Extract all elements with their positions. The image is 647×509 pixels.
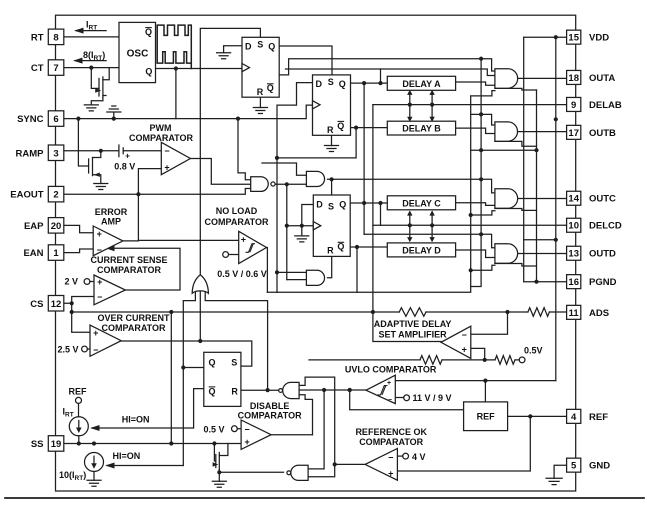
svg-text:4: 4 <box>571 412 577 423</box>
node CT-mosfet gate junction <box>89 66 93 70</box>
wire NAND1 lower input from disable <box>299 395 312 435</box>
svg-text:+: + <box>388 469 393 479</box>
svg-text:ADS: ADS <box>589 308 609 319</box>
svg-text:COMPARATOR: COMPARATOR <box>205 217 269 227</box>
wire DELAB line pin 9 <box>373 104 566 106</box>
wire link y239.8 <box>524 239 556 241</box>
wire FF1 D to ground <box>224 46 242 53</box>
AND gate B (OUTB) <box>495 122 518 141</box>
over current comparator triangle <box>90 325 121 356</box>
terminal 0.5V disable <box>232 426 238 432</box>
resistor R4 <box>495 356 515 365</box>
wire gate F output up to FF3 R <box>328 256 332 277</box>
UVLO comparator triangle <box>366 375 395 403</box>
svg-text:6: 6 <box>53 114 58 125</box>
resistor R2 ADS <box>528 308 549 317</box>
svg-text:AMP: AMP <box>101 217 121 227</box>
wire RAMP line with battery to PWM minus <box>64 150 162 152</box>
AND gate E (above FF3) <box>306 171 324 186</box>
pin 9 DELAB <box>567 97 581 111</box>
wire bus 481 vertical <box>471 58 481 287</box>
NAND gate NAND1 (points left) <box>283 382 299 398</box>
wire EAOUT line to gate W <box>64 189 251 195</box>
arrow IRT <box>76 30 106 32</box>
wire gate A rail staircase right <box>495 88 537 90</box>
SR latch <box>204 352 241 406</box>
wire SS to CS line vertical <box>170 312 172 444</box>
pin 11 ADS <box>567 305 581 319</box>
node CS pin branches <box>70 301 74 305</box>
wire FF2 Q to DELAY A <box>351 82 388 84</box>
wire cross link y150 <box>471 149 537 151</box>
PWM comparator triangle <box>161 142 190 174</box>
svg-text:Q: Q <box>339 79 346 89</box>
no-load comparator triangle <box>239 231 267 263</box>
node SYNC internal ground <box>112 117 116 121</box>
current sense comparator triangle <box>94 275 125 305</box>
wire NAND1 upper input from REFOK <box>299 377 335 477</box>
OSC Q-bar waveform glyph <box>157 25 191 68</box>
pin 19 SS <box>48 436 64 452</box>
svg-text:CURRENT SENSE: CURRENT SENSE <box>90 255 167 265</box>
delay block DELAY A <box>387 76 455 90</box>
wire no-load comparator output down to mesh <box>266 248 269 293</box>
svg-text:−: − <box>388 397 392 404</box>
wire gate D top step <box>481 234 495 247</box>
wire 0.5V line with resistors <box>309 359 519 361</box>
svg-text:COMPARATOR: COMPARATOR <box>129 133 193 143</box>
wire VDD bus right vertical <box>555 37 557 380</box>
wire SYNC line <box>64 105 313 119</box>
pin 20 EAP <box>48 218 64 234</box>
svg-text:DELCD: DELCD <box>589 221 622 232</box>
node ADS minus tap <box>505 310 509 314</box>
wire REF box top stub <box>484 381 486 402</box>
wire gate A staircase to mesh vertical <box>471 91 495 96</box>
svg-text:NO LOAD: NO LOAD <box>216 206 258 216</box>
pin 7 CT <box>48 60 64 76</box>
delay block DELAY C <box>387 196 455 210</box>
svg-text:−: − <box>93 345 98 355</box>
node bus-277 at gate F <box>275 270 279 274</box>
REF regulator box <box>464 402 508 431</box>
AND gate W (PWM gating) <box>251 177 269 192</box>
svg-text:GND: GND <box>589 461 610 472</box>
svg-text:D: D <box>315 79 322 89</box>
pin 8 RT <box>48 29 64 44</box>
svg-text:2: 2 <box>53 190 58 201</box>
pin 1 EAN <box>48 245 64 260</box>
pin 5 GND <box>567 458 581 472</box>
svg-text:Q: Q <box>339 200 346 210</box>
svg-text:DELAY A: DELAY A <box>402 79 441 89</box>
svg-text:REF: REF <box>589 412 608 423</box>
wire DELAY D output to gate D <box>456 250 495 258</box>
terminal 11V/9V <box>404 395 410 401</box>
delay block DELAY B <box>387 121 455 135</box>
wire no-load upper input from error amp output <box>138 239 238 241</box>
svg-text:OUTC: OUTC <box>589 194 616 205</box>
svg-text:HI=ON: HI=ON <box>113 451 141 461</box>
node bus-277 at Qbar feedback <box>275 156 279 160</box>
svg-text:+: + <box>462 345 467 355</box>
wire gate A output to OUTA <box>505 77 566 79</box>
delay AB arrows <box>410 93 432 118</box>
clock input triangle FF2 <box>313 101 321 109</box>
svg-text:CT: CT <box>31 63 44 74</box>
flip-flop FF3 <box>313 195 350 256</box>
ground at GND pin <box>546 478 562 484</box>
svg-text:2 V: 2 V <box>65 277 79 287</box>
node OC to OR center <box>198 339 202 343</box>
OR gate (PWM latch set, points up) <box>192 275 208 294</box>
ground under FF1 <box>253 108 267 114</box>
wire 2.5V source to OC comp minus <box>87 348 90 350</box>
pin 10 DELCD <box>567 218 581 232</box>
ground under M2 <box>94 184 108 190</box>
wire CT pin to OSC <box>64 67 119 69</box>
wire gate F lower input from clock bus <box>287 279 307 281</box>
wire gate D output to OUTD <box>508 253 566 255</box>
wire OR left input from CS line <box>183 291 195 466</box>
svg-text:REFERENCE OK: REFERENCE OK <box>355 427 427 437</box>
svg-text:S: S <box>328 77 334 87</box>
wire VDD bus left vertical <box>523 37 525 282</box>
svg-text:0.5 V / 0.6 V: 0.5 V / 0.6 V <box>217 269 267 279</box>
svg-text:0.5V: 0.5V <box>524 345 543 355</box>
wire gate B rail staircase <box>495 141 537 146</box>
disable comparator triangle <box>241 420 271 449</box>
terminal 2V <box>84 279 90 285</box>
pin 14 OUTC <box>567 191 581 205</box>
svg-text:S: S <box>257 40 263 50</box>
svg-text:−: − <box>388 453 393 463</box>
wire gate D staircase to mesh vertical <box>471 265 495 270</box>
wire OR center input <box>199 292 201 342</box>
ground above SYNC line (inverted) <box>107 106 121 119</box>
svg-text:+: + <box>241 235 246 245</box>
wire CS comp output feedback to error amp minus <box>107 248 180 290</box>
svg-text:R: R <box>327 125 334 135</box>
overline FF3 Qbar <box>338 241 345 243</box>
clock input triangle FF3 <box>313 222 321 230</box>
resistor R1 ADS <box>399 308 426 317</box>
svg-text:−: − <box>462 330 467 340</box>
svg-text:RT: RT <box>31 32 44 43</box>
svg-text:Q: Q <box>145 27 152 37</box>
node SYNC mosfet-gate branch <box>76 117 80 121</box>
svg-text:PGND: PGND <box>589 277 617 288</box>
wire gate C top step <box>481 179 495 193</box>
ground at FF1 D <box>217 53 231 59</box>
svg-text:Q: Q <box>145 66 152 76</box>
wire DELAY C output to gate C <box>456 203 495 206</box>
wire gate2 upper feed from UVLO <box>308 390 324 469</box>
wire FF3 Qbar to DELAY D <box>350 246 387 248</box>
flip-flop FF1 <box>242 37 279 97</box>
ground under M1 <box>84 105 98 111</box>
wire gate C output to OUTC <box>508 198 566 200</box>
svg-text:10: 10 <box>568 221 579 232</box>
svg-text:DELAB: DELAB <box>589 100 622 111</box>
svg-text:R: R <box>231 386 238 396</box>
wire UVLO output to NAND1 <box>299 389 366 391</box>
svg-text:REF: REF <box>477 412 496 422</box>
wire pin4 net down to refok plus <box>397 416 530 471</box>
wire IRT source to SS line <box>78 436 80 444</box>
wire FF3 D to ground <box>302 205 314 236</box>
wire ADS line pin 11 <box>426 311 566 313</box>
pin 3 RAMP <box>48 145 64 161</box>
wire gate B top step <box>471 114 495 125</box>
svg-text:COMPARATOR: COMPARATOR <box>359 437 423 447</box>
svg-text:18: 18 <box>568 73 579 84</box>
node REF box top tap <box>483 379 487 383</box>
svg-text:COMPARATOR: COMPARATOR <box>238 411 302 421</box>
node A-bus tap <box>479 57 483 61</box>
svg-text:13: 13 <box>568 249 579 260</box>
svg-text:−: − <box>97 245 102 255</box>
node SS junctions <box>77 441 81 445</box>
svg-text:−: − <box>244 425 249 435</box>
svg-text:R: R <box>327 246 334 256</box>
terminal 4V <box>403 453 409 459</box>
AND gate F (below FF3) <box>306 270 324 285</box>
svg-text:RAMP: RAMP <box>16 148 45 159</box>
wire VDD pin line <box>524 36 566 38</box>
wire gate D rail staircase right <box>495 264 537 267</box>
pin 16 PGND <box>567 275 581 289</box>
node SYNC gating branch <box>236 117 240 121</box>
bubble on NAND1 output <box>279 389 283 393</box>
wire PWM comparator output to gate W <box>190 159 250 185</box>
wire FF1 Qbar to gate A top <box>279 59 495 75</box>
wire EAN input <box>64 249 93 253</box>
wire mesh line y294 <box>267 96 470 292</box>
wire RT pin to OSC <box>64 36 119 38</box>
wire SS line <box>64 443 241 445</box>
arrow 8(IRT) <box>75 60 106 62</box>
flip-flop FF2 <box>313 75 351 135</box>
svg-text:Q: Q <box>337 121 344 131</box>
pin 15 VDD <box>567 30 581 44</box>
svg-text:Q: Q <box>268 41 275 51</box>
AND gate C (OUTC) <box>495 189 518 209</box>
wire OSC Q clock to FF1 clock <box>156 68 243 70</box>
svg-text:S: S <box>231 358 237 368</box>
wire UVLO net down to REF box <box>350 390 464 410</box>
pin 13 OUTD <box>567 246 581 260</box>
bottom figure rule <box>5 497 644 499</box>
wire gate F upper input <box>277 271 306 273</box>
svg-text:Q: Q <box>208 386 215 396</box>
svg-text:Q: Q <box>267 83 274 93</box>
wire FF1 Q to FF2 S <box>279 46 332 75</box>
error amplifier triangle <box>93 226 123 256</box>
svg-text:−: − <box>164 146 169 156</box>
svg-text:11: 11 <box>569 308 580 319</box>
wire OR right input to latch R drop <box>205 291 267 390</box>
wire DELCD line pin 10 <box>373 224 566 226</box>
svg-text:1: 1 <box>53 248 59 259</box>
wire gate B output to OUTB <box>508 131 566 133</box>
wire latch Q output <box>183 367 204 369</box>
svg-text:+: + <box>164 163 169 173</box>
overline OSC Qbar <box>145 27 152 29</box>
transistor M2 (RAMP discharge) <box>78 119 88 166</box>
wire FF3 Qbar drop to mesh <box>356 247 358 292</box>
svg-text:3: 3 <box>53 148 58 159</box>
wire latch Qbar to HI=ON upper <box>92 389 204 428</box>
ground under FF2 <box>325 146 339 152</box>
svg-text:+: + <box>97 229 102 239</box>
IC boundary <box>56 15 576 491</box>
svg-text:DELAY C: DELAY C <box>402 198 441 208</box>
wire gate E upper input <box>262 163 306 175</box>
svg-text:DELAY D: DELAY D <box>402 246 441 256</box>
terminal 2.5V <box>82 346 88 352</box>
svg-text:0.5 V: 0.5 V <box>204 425 225 435</box>
svg-text:EAP: EAP <box>24 221 44 232</box>
wire FF3 Q staircase to gate D top <box>364 233 481 235</box>
wire rail vertical x536.5 <box>536 90 538 282</box>
svg-text:4 V: 4 V <box>412 452 426 462</box>
wire FF2 R to ground <box>331 135 333 145</box>
svg-text:SS: SS <box>31 439 44 450</box>
wire gate E output to FF3 S and bus <box>328 178 482 180</box>
current source 10(IRT) <box>85 453 104 472</box>
node ADS plus tap <box>483 358 487 362</box>
svg-text:OUTA: OUTA <box>589 73 615 84</box>
clock input triangle FF1 <box>242 64 250 72</box>
node FF2 Qbar tap <box>354 126 358 130</box>
wire clock drop to FF3 and gate F <box>287 184 314 279</box>
svg-text:D: D <box>245 41 252 51</box>
reference OK comparator triangle (points left) <box>365 449 397 481</box>
wire disable comparator output <box>271 434 312 436</box>
svg-text:8: 8 <box>53 32 58 43</box>
wire ADS amp minus input <box>471 312 508 334</box>
svg-text:CS: CS <box>30 299 43 310</box>
wire ADS amp output feedback <box>373 312 441 342</box>
svg-text:15: 15 <box>568 33 579 44</box>
svg-text:Q: Q <box>337 242 344 252</box>
svg-text:OUTD: OUTD <box>589 249 616 260</box>
svg-text:Q: Q <box>208 358 215 368</box>
wire refok output <box>335 463 365 465</box>
wire CS long line to ADS network <box>72 311 400 313</box>
delay CD arrows <box>410 214 432 239</box>
svg-text:D: D <box>316 200 323 210</box>
wire mid vertical bus x373 <box>372 105 374 312</box>
wire GND pin ground <box>554 465 566 478</box>
wire PGND line pin16 <box>524 281 566 283</box>
svg-text:0.8 V: 0.8 V <box>114 162 135 172</box>
svg-text:16: 16 <box>568 277 579 288</box>
svg-text:HI=ON: HI=ON <box>122 415 150 425</box>
ground under 10IRT <box>87 480 101 486</box>
wire UVLO plus supply line <box>395 380 556 382</box>
wire HI=ON lower arrow line to gate G2 <box>107 465 183 467</box>
wire EAP input <box>64 225 93 232</box>
battery 0.8V <box>119 145 123 157</box>
transistor M3 (SS discharge) <box>214 444 215 462</box>
pin 2 EAOUT <box>48 186 64 202</box>
current source IRT <box>69 417 88 436</box>
wire FF2 Qbar to DELAY B <box>351 127 388 129</box>
svg-text:19: 19 <box>51 439 62 450</box>
wire ADS amp plus input <box>471 348 485 360</box>
node RAMP mosfet drain <box>99 149 103 153</box>
node gate W output branch <box>285 182 289 186</box>
oscillator OSC <box>119 22 156 82</box>
svg-text:ERROR: ERROR <box>95 207 128 217</box>
bubble on gate W output <box>271 182 275 186</box>
svg-text:17: 17 <box>568 128 579 139</box>
wire FF3 Q to DELAY C <box>350 202 387 204</box>
wire FF2 Qbar feedback <box>277 128 356 158</box>
wire OR output to FF1 S <box>200 28 260 274</box>
svg-text:+: + <box>244 437 249 447</box>
terminal REF <box>76 397 82 403</box>
node CS line to SS drop <box>169 310 173 314</box>
wire DELAY A output to gate A <box>456 82 495 85</box>
ground at FF3 D <box>295 236 309 242</box>
wire error amp output to EAOUT node <box>123 194 138 241</box>
bubble on G2 output <box>287 471 291 475</box>
adaptive delay set amplifier triangle <box>441 326 471 358</box>
node latch Q on long vertical <box>181 365 185 369</box>
wire 10IRT to ground <box>93 472 95 481</box>
wire gate W output to gate E <box>275 183 306 185</box>
wire 0.5V to disable minus <box>237 428 241 430</box>
overline latch Qbar <box>209 386 216 388</box>
wire UVLO minus threshold <box>395 397 403 399</box>
svg-text:R: R <box>257 87 264 97</box>
svg-text:REF: REF <box>69 387 88 397</box>
node R line junction <box>266 388 270 392</box>
pin 6 SYNC <box>48 111 64 127</box>
wire bus-277 (disable/pwm latch D feedback) <box>277 83 313 293</box>
svg-text:COMPARATOR: COMPARATOR <box>97 265 161 275</box>
svg-text:VDD: VDD <box>589 33 609 44</box>
svg-text:COMPARATOR: COMPARATOR <box>102 323 166 333</box>
svg-text:5: 5 <box>571 461 577 472</box>
svg-text:SET AMPLIFIER: SET AMPLIFIER <box>379 330 448 340</box>
svg-text:+: + <box>97 277 102 287</box>
svg-text:ADAPTIVE DELAY: ADAPTIVE DELAY <box>374 319 452 329</box>
wire FF2 Q long drop <box>363 83 365 234</box>
wire clock drop to SYNC line <box>175 69 177 119</box>
hysteresis glyph no-load <box>246 244 256 253</box>
wire SYNC drop to gate W <box>238 119 251 180</box>
svg-text:+: + <box>387 380 391 387</box>
wire REF box output to pin 4 <box>508 415 566 417</box>
pin 17 OUTB <box>567 125 581 139</box>
wire FF1 R to ground <box>259 97 261 107</box>
svg-text:7: 7 <box>53 63 58 74</box>
OSC Q waveform glyph <box>157 27 191 63</box>
svg-text:+: + <box>125 152 130 161</box>
pin 18 OUTA <box>567 70 581 84</box>
svg-text:14: 14 <box>568 194 579 205</box>
wire mid line to gate A second input <box>286 69 495 76</box>
svg-text:−: − <box>97 292 102 302</box>
ground under M3 <box>212 481 226 487</box>
terminal 0.5/0.6V no-load <box>223 252 229 258</box>
svg-text:+: + <box>93 328 98 338</box>
wire gate C staircase to mesh vertical <box>471 211 495 215</box>
